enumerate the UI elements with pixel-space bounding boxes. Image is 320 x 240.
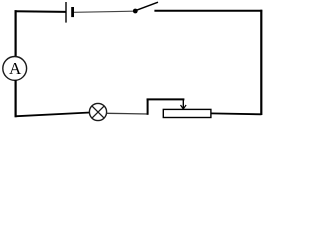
wire rheostat right lead [211,112,262,115]
battery B1 long plate [65,2,67,23]
wire right vertical [260,10,262,115]
rheostat slider arrow stem [182,99,184,109]
wire lamp to riser [107,112,148,115]
switch S1 pivot dot [133,9,138,14]
rheostat slider arrowhead [181,105,187,109]
svg-text:A: A [9,59,22,78]
wire bottom (ammeter to lamp) [15,113,90,117]
wire riser top horizontal [147,98,185,100]
ammeter A1 circle [3,57,27,81]
lamp L1 circle [89,103,106,120]
switch S1 lever [136,2,158,10]
wire top-right horizontal [154,10,262,12]
lamp L1 cross [92,106,104,118]
wire top-left horizontal [15,10,66,13]
wire riser vertical [147,99,149,115]
battery B1 short plate [71,7,74,17]
wire left-bottom vertical [15,80,17,117]
wire left vertical [15,10,17,57]
rheostat R1 body [163,109,211,117]
wire battery to switch [74,11,134,12]
